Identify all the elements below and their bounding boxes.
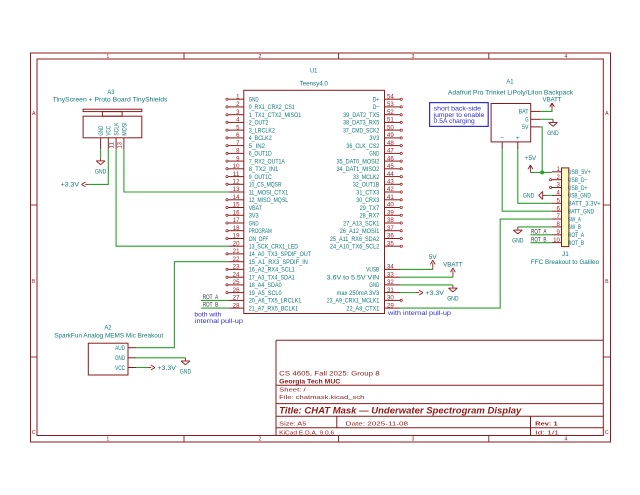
svg-text:12_MISO_MQSL: 12_MISO_MQSL [249,197,289,204]
svg-text:2: 2 [259,437,262,443]
U1 pin 35 (24_A10_TX6_SCL2) [330,241,402,250]
svg-text:54: 54 [387,94,394,100]
svg-text:33_MCLK2: 33_MCLK2 [353,174,380,181]
J1 pin 8 (SW_B) [552,222,582,231]
svg-text:8_TX2_IN1: 8_TX2_IN1 [249,166,279,173]
J1 pin 9 (ROT_A) [552,230,585,239]
svg-text:C: C [32,430,36,436]
svg-text:U1: U1 [310,67,317,74]
svg-text:29_TX7: 29_TX7 [360,205,380,212]
svg-text:19: 19 [233,234,240,240]
J1 pin 2 (USB_D−) [550,175,588,184]
svg-text:30: 30 [387,296,394,302]
connector J1 body [562,168,569,247]
svg-text:13: 13 [233,187,240,193]
svg-text:35: 35 [387,241,394,247]
svg-text:VBATT: VBATT [543,96,562,103]
svg-text:15_A1_RX3_SPDIF_IN: 15_A1_RX3_SPDIF_IN [249,259,308,266]
svg-text:9_OUT1C: 9_OUT1C [249,174,272,181]
ground symbol right of U1 [447,285,459,303]
svg-text:VCC: VCC [115,365,125,372]
ground symbol right of A1 [547,119,559,137]
svg-text:GND: GND [512,238,524,245]
svg-text:Title: CHAT Mask — Underwater: Title: CHAT Mask — Underwater Spectrogra… [279,406,522,416]
svg-text:AUD: AUD [115,345,125,352]
svg-text:Georgia Tech MUC: Georgia Tech MUC [279,378,341,385]
svg-text:34: 34 [387,265,394,271]
A3 pin GND [98,126,105,150]
svg-text:31: 31 [387,288,394,294]
svg-text:File: chatmask.kicad_sch: File: chatmask.kicad_sch [279,395,364,401]
A2 pin VCC [115,365,136,372]
J1 pin 5 (BATT_3.3V+) [552,199,601,208]
wire label ROT_B to J1 pin 10 [531,242,552,244]
U1 pin 54 (D+) [373,94,403,103]
U1 pin 30 (23_A9_CRX1_MCLK1) [327,296,403,305]
svg-text:15: 15 [233,203,240,209]
svg-text:53: 53 [387,102,394,108]
svg-text:22: 22 [233,257,240,263]
J1 pin 10 (ROT_B) [552,238,585,247]
svg-text:3: 3 [412,54,415,60]
U1 pin 24 (17_A3_TX4_SDA1) [226,272,295,281]
svg-text:B: B [605,279,609,285]
U1 pin 37 (26_A12_MOSI1) [340,226,403,235]
U1 pin 4 (2_OUT2) [226,118,269,127]
U1 pin 27 (20_A6_TX5_LRCLK1) [228,296,301,305]
svg-text:+5V: +5V [525,155,537,162]
wire A1 minus to J1 BATT_GND [502,149,552,211]
svg-text:23_A9_CRX1_MCLK1: 23_A9_CRX1_MCLK1 [327,298,380,305]
wire A2 VCC to +3.3V [136,367,148,369]
svg-text:2_OUT2: 2_OUT2 [249,120,269,127]
U1 pin 5 (3_LRCLK2) [226,125,275,134]
svg-text:48: 48 [387,141,394,147]
U1 pin 49 (3V3) [369,133,402,142]
ground symbol below SW_B wire [512,227,524,245]
svg-text:11: 11 [109,142,116,149]
U1 pin 3 (1_TX1_CTX2_MISO1) [226,110,302,119]
svg-text:23: 23 [233,265,240,271]
svg-text:7_RX2_OUT1A: 7_RX2_OUT1A [249,158,286,165]
ground symbol at J1 USB_GND [523,191,546,199]
power symbol +5V [525,155,537,173]
svg-text:6_OUT1D: 6_OUT1D [249,151,272,158]
svg-text:SparkFun Analog MEMS Mic Break: SparkFun Analog MEMS Mic Breakout [54,333,163,340]
svg-text:+3.3V: +3.3V [61,182,80,189]
J1 pin 7 (SW_A) [552,214,582,223]
svg-text:VUSB: VUSB [366,267,380,274]
U1 pin 12 (10_CS_MQSR) [226,180,282,189]
note both with internal pull-up [194,311,243,325]
svg-text:KiCad E.D.A. 9.0.6: KiCad E.D.A. 9.0.6 [279,430,334,436]
J1 pin 6 (BATT_GND) [552,206,594,215]
svg-text:1_TX1_CTX2_MISO1: 1_TX1_CTX2_MISO1 [249,112,302,119]
svg-text:with internal pull-up: with internal pull-up [387,310,452,317]
svg-text:39_DAT2_TX5: 39_DAT2_TX5 [343,112,379,119]
U1 pin 7 (5_IN2) [226,141,265,150]
svg-text:BATT_3.3V+: BATT_3.3V+ [568,201,601,208]
svg-text:FFC Breakout to Galileo: FFC Breakout to Galileo [531,259,600,266]
svg-text:14_A0_TX3_SPDIF_OUT: 14_A0_TX3_SPDIF_OUT [249,251,312,258]
svg-text:BAT: BAT [519,109,529,116]
U1 pin 32 (GND) [369,280,400,289]
A1 pin G [525,117,540,124]
U1 pin 42 (31_CTX3) [356,187,402,196]
svg-text:PROGRAM: PROGRAM [249,228,272,235]
svg-text:34_DAT1_MISO2: 34_DAT1_MISO2 [337,166,380,173]
power symbol VBATT above A1 [543,96,562,110]
svg-text:ROT_B: ROT_B [568,240,585,247]
power symbol VBATT right of U1 [443,262,463,278]
wire A3 VCC to +3.3V [89,149,109,184]
svg-text:GND: GND [98,126,105,136]
wire A1 G to ground [540,118,553,120]
svg-text:28_RX7: 28_RX7 [360,213,380,220]
power symbol +3.3V left of A3 [61,182,89,189]
wire A2 AUD to U1 pin 22 [136,262,228,348]
module A3 body [83,109,142,138]
U1 pin 19 (ON_OFF) [226,234,269,243]
U1 pin 31 (max 250mA 3V3) [337,288,401,297]
svg-text:5V: 5V [429,254,437,261]
svg-text:BATT_GND: BATT_GND [568,209,594,216]
svg-text:GND: GND [115,355,125,362]
U1 pin 41 (30_CRX3) [356,195,402,204]
svg-text:17: 17 [233,218,240,224]
svg-text:26_A12_MOSI1: 26_A12_MOSI1 [340,228,380,235]
U1 pin 8 (6_OUT1D) [226,149,272,158]
U1 pin 11 (9_OUT1C) [226,172,272,181]
svg-text:D+: D+ [373,97,380,104]
svg-text:28: 28 [233,303,240,309]
svg-text:C: C [605,430,609,436]
svg-text:5V: 5V [522,124,529,131]
svg-text:SW_B: SW_B [568,224,582,231]
svg-text:37: 37 [387,226,394,232]
A1 pin 5V [522,124,541,131]
ground symbol below A3 [95,158,107,176]
svg-text:22_A8_CTX1: 22_A8_CTX1 [346,305,379,312]
svg-text:38: 38 [387,218,394,224]
U1 pin 44 (33_MCLK2) [353,172,402,181]
svg-text:B: B [32,279,36,285]
wire label ROT_A to U1 pin 27 [201,299,228,301]
svg-text:USB_D−: USB_D− [568,177,588,184]
U1 pin 9 (7_RX2_OUT1A) [226,156,285,165]
svg-text:A: A [32,111,36,117]
U1 pin 53 (D−) [373,102,403,111]
svg-text:32_OUT1B: 32_OUT1B [353,182,380,189]
svg-text:16_A2_RX4_SCL1: 16_A2_RX4_SCL1 [249,267,295,274]
svg-text:10: 10 [233,164,240,170]
A3 pin SCLK [114,122,121,149]
svg-text:GND: GND [547,130,559,137]
A2 pin AUD [115,345,136,352]
wire A1 plus to J1 BATT_3.3V+ [518,149,552,203]
svg-text:J1: J1 [562,251,569,258]
svg-text:32: 32 [387,280,394,286]
junction at +5V net [540,170,544,174]
J1 pin 4 (USB_GND) [552,191,591,200]
svg-text:47: 47 [387,149,394,155]
svg-text:30_CRX3: 30_CRX3 [356,197,379,204]
power symbol +3.3V right of U1 [416,290,445,297]
J1 pin 3 (USB_D+) [550,183,588,192]
svg-text:USB_GND: USB_GND [568,193,591,200]
U1 pin 23 (16_A2_RX4_SCL1) [226,265,295,274]
A1 pin minus [500,135,504,150]
svg-text:33: 33 [387,272,394,278]
U1 pin 26 (19_A5_SCL0) [226,288,282,297]
svg-text:10: 10 [553,238,560,244]
svg-text:0.5A charging: 0.5A charging [434,118,476,125]
svg-text:3_LRCLK2: 3_LRCLK2 [249,127,276,134]
U1 pin 1 (GND) [226,94,259,103]
svg-text:13: 13 [116,142,123,149]
svg-text:51: 51 [387,118,394,124]
U1 pin 2 (0_RX1_CRX2_CS1) [226,102,295,111]
svg-text:USB_5V+: USB_5V+ [568,169,591,176]
J1 pin 1 (USB_5V+) [552,167,591,176]
wire +5V to J1 pin 1 [530,171,551,173]
svg-text:USB_D+: USB_D+ [568,185,588,192]
svg-text:VCC: VCC [106,126,113,136]
svg-text:25_A11_RX6_SDA2: 25_A11_RX6_SDA2 [330,236,380,243]
svg-text:VBATT: VBATT [443,262,463,269]
svg-text:24: 24 [233,272,240,278]
wire U1 pin 29 22_A8_CTX1 to J1 SW_A [400,219,552,308]
svg-text:25: 25 [233,280,240,286]
svg-text:14: 14 [233,195,240,201]
svg-text:Id: 1/1: Id: 1/1 [535,430,559,436]
svg-text:16: 16 [233,211,240,217]
svg-text:Rev: 1: Rev: 1 [535,422,558,428]
svg-text:31_CTX3: 31_CTX3 [356,189,379,196]
svg-text:D−: D− [373,104,380,111]
U1 pin 51 (38_DAT3_RX5) [343,118,402,127]
svg-text:27: 27 [233,296,240,302]
svg-text:18_A4_SDA0: 18_A4_SDA0 [249,282,282,289]
U1 pin 21 (14_A0_TX3_SPDIF_OUT) [226,249,311,258]
U1 pin 20 (13_SCK_CRX1_LED) [228,241,298,250]
svg-text:1: 1 [106,437,109,443]
svg-text:4_BCLK2: 4_BCLK2 [249,135,272,142]
U1 pin 46 (35_DAT0_MOSI2) [337,156,403,165]
wire A3 SCLK to U1 pin 20 [116,149,228,246]
svg-text:3.6V to 5.5V VIN: 3.6V to 5.5V VIN [327,275,380,282]
svg-text:41: 41 [387,195,394,201]
svg-text:11_MOSI_CTX1: 11_MOSI_CTX1 [249,189,289,196]
title block comment text [279,370,380,385]
U1 pin 28 (21_A7_RX5_BCLK1) [228,303,298,312]
svg-text:0_RX1_CRX2_CS1: 0_RX1_CRX2_CS1 [249,104,295,111]
wire J1 USB_GND to ground [546,194,552,196]
wire A3 GND to ground [100,149,102,157]
svg-text:MOSI: MOSI [121,122,128,135]
svg-text:SW_A: SW_A [568,216,582,223]
svg-text:A: A [605,111,609,117]
U1 pin 52 (39_DAT2_TX5) [343,110,402,119]
svg-text:+: + [516,135,520,142]
svg-text:−: − [500,135,504,142]
svg-text:20: 20 [233,241,240,247]
svg-text:Size: A5: Size: A5 [279,422,306,428]
svg-text:11: 11 [233,172,241,178]
svg-text:GND: GND [523,193,535,200]
svg-text:internal pull-up: internal pull-up [195,318,244,325]
svg-text:35_DAT0_MOSI2: 35_DAT0_MOSI2 [337,158,380,165]
svg-text:+3.3V: +3.3V [425,290,444,297]
svg-text:ROT_A: ROT_A [568,232,585,239]
ground symbol right of A2 [180,358,192,376]
svg-text:42: 42 [387,187,394,193]
wire J1 SW_B to ground [518,226,552,228]
svg-text:3: 3 [412,437,415,443]
svg-text:GND: GND [249,220,259,227]
U1 pin 33 (3.6V to 5.5V VIN) [327,272,400,281]
note box short back-side jumper to enable 0.5A charging [430,103,489,127]
svg-text:36_CLK_CS2: 36_CLK_CS2 [346,143,379,150]
svg-text:21_A7_RX5_BCLK1: 21_A7_RX5_BCLK1 [249,305,299,312]
svg-text:20_A6_TX5_LRCLK1: 20_A6_TX5_LRCLK1 [249,298,302,305]
svg-text:46: 46 [387,156,394,162]
svg-text:GND: GND [95,169,107,176]
svg-text:40: 40 [387,203,394,209]
svg-text:A2: A2 [104,324,111,331]
U1 pin 17 (GND) [226,218,259,227]
U1 pin 22 (15_A1_RX3_SPDIF_IN) [228,257,308,266]
U1 pin 15 (VBAT) [226,203,262,212]
svg-text:G: G [525,117,528,124]
svg-text:CS 4605, Fall 2025: Group 8: CS 4605, Fall 2025: Group 8 [279,370,380,377]
U1 pin 47 (GND) [369,149,402,158]
power symbol +3.3V right of A2 [148,365,177,372]
U1 pin 45 (34_DAT1_MISO2) [337,164,403,173]
A3 pin MOSI [121,122,128,149]
wire U1 3V3 pin 31 to +3.3V [400,292,416,294]
svg-text:13_SCK_CRX1_LED: 13_SCK_CRX1_LED [249,244,299,251]
U1 pin 13 (11_MOSI_CTX1) [228,187,288,196]
U1 pin 16 (3V3) [226,211,259,220]
svg-text:Date: 2025-11-08: Date: 2025-11-08 [346,422,408,428]
svg-text:45: 45 [387,164,394,170]
svg-text:10_CS_MQSR: 10_CS_MQSR [249,182,282,189]
wire A2 GND to ground [136,357,186,359]
svg-text:4: 4 [565,437,568,443]
svg-text:1: 1 [106,54,109,60]
U1 pin 50 (37_CMD_SCK2) [343,125,402,134]
svg-text:GND: GND [369,151,379,158]
U1 pin 6 (4_BCLK2) [226,133,272,142]
svg-text:GND: GND [447,296,459,303]
svg-text:29: 29 [387,303,394,309]
IC U1 body [244,90,385,313]
sheet border frame [31,53,611,443]
U1 pin 29 (22_A8_CTX1) [346,303,400,312]
svg-text:A1: A1 [506,79,513,86]
wire U1 VIN to VBATT [400,276,453,278]
U1 pin 10 (8_TX2_IN1) [226,164,279,173]
svg-text:49: 49 [387,133,394,139]
svg-text:GND: GND [180,369,192,376]
wire U1 GND pin 32 to ground [400,284,453,286]
U1 pin 48 (36_CLK_CS2) [346,141,402,150]
svg-text:24_A10_TX6_SCL2: 24_A10_TX6_SCL2 [330,244,380,251]
U1 pin 43 (32_OUT1B) [353,180,402,189]
svg-text:max 250mA 3V3: max 250mA 3V3 [337,290,380,297]
svg-text:TinyScreen + Proto Board TinyS: TinyScreen + Proto Board TinyShields [53,97,169,104]
svg-text:50: 50 [387,125,394,131]
wire A3 MOSI to U1 pin 13 [124,149,228,192]
wire label ROT_B to U1 pin 28 [201,307,228,309]
svg-text:36: 36 [387,234,394,240]
svg-text:Sheet: /: Sheet: / [279,388,306,394]
wire label ROT_A to J1 pin 9 [531,234,552,236]
svg-text:Teensy4.0: Teensy4.0 [300,80,329,87]
U1 pin 34 (VUSB) [366,265,400,274]
svg-text:3V3: 3V3 [369,135,379,142]
svg-text:38_DAT3_RX5: 38_DAT3_RX5 [343,120,379,127]
power symbol 5V [429,254,437,270]
svg-text:SCLK: SCLK [114,122,121,136]
svg-text:Adafruit Pro Trinket LiPoly/Li: Adafruit Pro Trinket LiPoly/LiIon Backpa… [448,89,574,96]
svg-text:12: 12 [233,180,240,186]
U1 pin 14 (12_MISO_MQSL) [226,195,289,204]
A2 pin GND [115,355,136,362]
svg-text:+3.3V: +3.3V [157,365,176,372]
svg-text:26: 26 [233,288,240,294]
svg-text:27_A13_SCK1: 27_A13_SCK1 [343,220,379,227]
svg-text:VBAT: VBAT [249,205,262,212]
module A2 body [88,343,128,375]
svg-text:5_IN2: 5_IN2 [249,143,266,150]
title block [276,340,603,435]
svg-text:44: 44 [387,172,394,178]
svg-text:A3: A3 [107,89,114,96]
A1 pin plus [516,135,520,150]
svg-text:37_CMD_SCK2: 37_CMD_SCK2 [343,127,379,134]
U1 pin 38 (27_A13_SCK1) [343,218,402,227]
svg-text:GND: GND [249,97,259,104]
A3 pin VCC [106,126,113,150]
svg-text:GND: GND [369,282,379,289]
wire A1 5V down to J1 USB_5V+ [540,127,542,172]
svg-text:52: 52 [387,110,394,116]
svg-text:19_A5_SCL0: 19_A5_SCL0 [249,290,282,297]
U1 pin 36 (25_A11_RX6_SDA2) [330,234,402,243]
U1 pin 18 (PROGRAM) [226,226,272,235]
svg-text:ON_OFF: ON_OFF [249,236,269,243]
svg-text:39: 39 [387,211,394,217]
svg-text:2: 2 [259,54,262,60]
U1 pin 25 (18_A4_SDA0) [226,280,282,289]
svg-text:18: 18 [233,226,240,232]
svg-text:17_A3_TX4_SDA1: 17_A3_TX4_SDA1 [249,275,295,282]
svg-text:4: 4 [565,54,568,60]
U1 pin 40 (29_TX7) [360,203,403,212]
A1 pin BAT [519,109,541,116]
svg-text:43: 43 [387,180,394,186]
svg-text:21: 21 [233,249,240,255]
module A1 body [491,104,531,142]
U1 pin 39 (28_RX7) [360,211,403,220]
wire U1 VUSB to 5V [400,268,433,270]
svg-text:3V3: 3V3 [249,213,259,220]
wire A1 BAT to VBATT [540,110,552,111]
